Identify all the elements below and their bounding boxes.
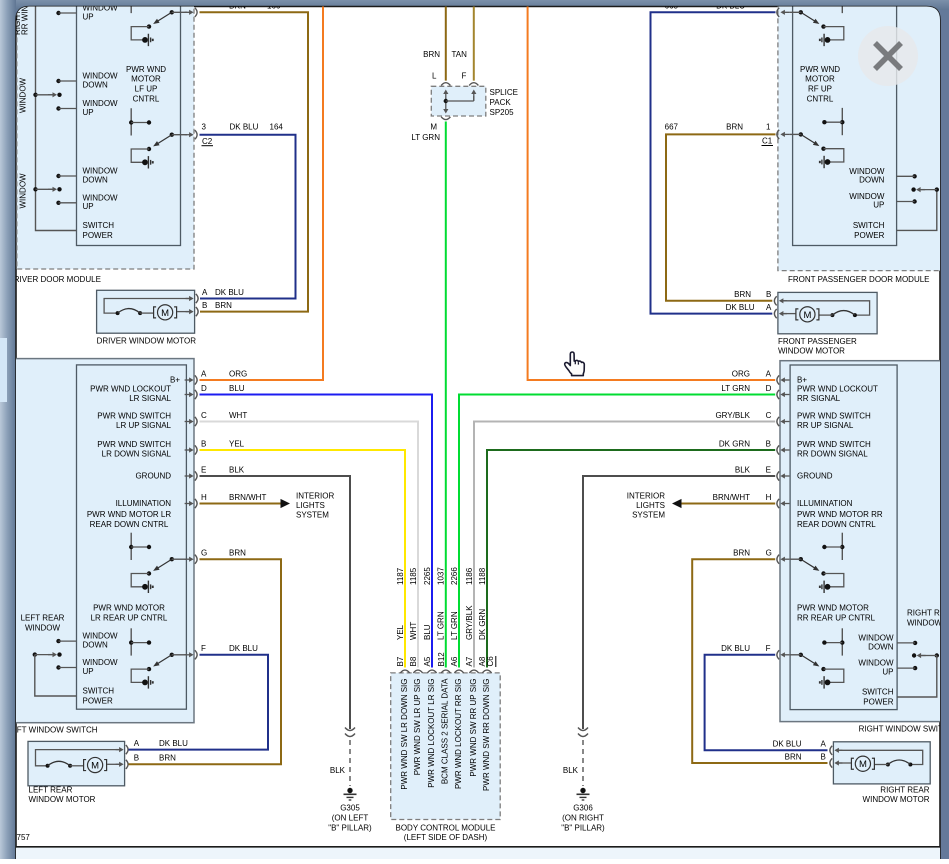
wire BLK left (ground to G305) bbox=[200, 476, 351, 729]
svg-text:WINDOW: WINDOW bbox=[849, 167, 885, 176]
BCM pin A8 DK GRN 1188 bbox=[482, 670, 491, 673]
svg-text:TAN: TAN bbox=[452, 50, 468, 59]
svg-text:BLK: BLK bbox=[229, 465, 245, 474]
svg-text:DRIVER DOOR MODULE: DRIVER DOOR MODULE bbox=[8, 275, 101, 284]
wire DK BLU 164 driver module pin3 to driver window motor A bbox=[200, 135, 296, 299]
wire BRN 667 (module pin1 to front passenger motor B) bbox=[666, 134, 776, 300]
motor driver group pin 2 (top, cut) bbox=[130, 0, 132, 13]
wire ORG right (top to right switch B+) bbox=[528, 7, 776, 381]
right window switch inner box bbox=[790, 365, 897, 710]
svg-text:UP: UP bbox=[83, 13, 94, 22]
wire BRN/WHT left (illumination) bbox=[200, 503, 282, 505]
wire BLK right (right switch ground to G306) bbox=[583, 476, 775, 729]
svg-text:G: G bbox=[201, 549, 207, 558]
svg-text:POWER: POWER bbox=[863, 697, 893, 706]
splice pack SP205 box bbox=[431, 86, 486, 116]
svg-text:LR SIGNAL: LR SIGNAL bbox=[129, 394, 171, 403]
svg-text:PWR WND MOTOR RR: PWR WND MOTOR RR bbox=[797, 510, 883, 519]
svg-text:BRN: BRN bbox=[785, 752, 802, 761]
svg-text:G: G bbox=[766, 549, 772, 558]
wire LT GRN (BCM A6 to right switch D) bbox=[459, 395, 775, 668]
wire DK BLU left (motor LR rear up cntrl to left rear motor A) bbox=[129, 655, 269, 750]
driver door module box (dashed) bbox=[17, 0, 194, 269]
svg-text:DK BLU: DK BLU bbox=[159, 739, 188, 748]
svg-text:WINDOW: WINDOW bbox=[83, 658, 119, 667]
svg-text:POWER: POWER bbox=[83, 696, 113, 705]
splice pack internal junction bbox=[445, 92, 447, 101]
svg-text:(LEFT SIDE OF DASH): (LEFT SIDE OF DASH) bbox=[404, 833, 488, 842]
svg-text:M: M bbox=[91, 760, 99, 771]
svg-text:LEFT REAR: LEFT REAR bbox=[21, 614, 65, 623]
wire BRN left (motor LR rear down cntrl to left rear motor B) bbox=[129, 559, 282, 764]
svg-text:ORG: ORG bbox=[229, 369, 247, 378]
svg-text:164: 164 bbox=[270, 123, 284, 132]
svg-text:WINDOW: WINDOW bbox=[849, 192, 885, 201]
svg-text:DOWN: DOWN bbox=[83, 80, 109, 89]
svg-text:WINDOW: WINDOW bbox=[858, 659, 894, 668]
wire DK BLU right (right switch F to right rear motor A) bbox=[705, 655, 828, 751]
svg-text:POWER: POWER bbox=[854, 231, 884, 240]
svg-text:LT GRN: LT GRN bbox=[411, 133, 440, 142]
wire TAN to splice pack pin F bbox=[473, 7, 475, 81]
svg-text:B12: B12 bbox=[437, 652, 446, 667]
svg-text:B: B bbox=[821, 752, 826, 761]
svg-text:1188: 1188 bbox=[478, 567, 487, 585]
svg-text:PWR WND SW LR UP SIG: PWR WND SW LR UP SIG bbox=[413, 679, 422, 776]
svg-text:BODY CONTROL MODULE: BODY CONTROL MODULE bbox=[395, 823, 495, 832]
driver door module inner switch box bbox=[77, 0, 181, 246]
svg-text:D: D bbox=[201, 384, 207, 393]
svg-text:SP205: SP205 bbox=[490, 108, 515, 117]
wire WHT (switch LR up to BCM B8) bbox=[200, 422, 419, 668]
svg-text:MOTOR: MOTOR bbox=[131, 75, 161, 84]
svg-text:WINDOW: WINDOW bbox=[83, 72, 119, 81]
svg-text:B8: B8 bbox=[409, 656, 418, 666]
svg-text:RF UP: RF UP bbox=[808, 85, 832, 94]
switch power bus (driver door module) bbox=[36, 0, 77, 231]
svg-text:E: E bbox=[766, 465, 771, 474]
svg-text:B7: B7 bbox=[396, 656, 405, 666]
svg-text:PWR WND MOTOR: PWR WND MOTOR bbox=[93, 604, 165, 613]
left switch pins A D C B E H G F with connectors bbox=[185, 379, 192, 381]
right switch pins A D C B E H G F with connectors bbox=[783, 379, 790, 381]
svg-text:B: B bbox=[766, 439, 771, 448]
svg-text:BLU: BLU bbox=[423, 624, 432, 640]
svg-text:DOWN: DOWN bbox=[868, 642, 894, 651]
wire BLU (lockout LR to BCM A5) bbox=[200, 395, 433, 668]
left switch motor driver group F bbox=[130, 628, 132, 655]
svg-text:SWITCH: SWITCH bbox=[853, 221, 885, 230]
svg-text:GROUND: GROUND bbox=[797, 472, 833, 481]
svg-text:M: M bbox=[161, 308, 169, 319]
svg-text:G305: G305 bbox=[340, 804, 360, 813]
svg-text:1037: 1037 bbox=[437, 567, 446, 585]
svg-text:A5: A5 bbox=[423, 656, 432, 666]
ground G305 bbox=[345, 728, 355, 731]
svg-text:B: B bbox=[766, 290, 771, 299]
svg-text:ILLUMINATION: ILLUMINATION bbox=[116, 499, 172, 508]
svg-text:GROUND: GROUND bbox=[135, 472, 171, 481]
svg-text:B: B bbox=[134, 754, 139, 763]
svg-text:RR DOWN SIGNAL: RR DOWN SIGNAL bbox=[797, 450, 868, 459]
svg-text:L: L bbox=[432, 72, 437, 81]
left rear window motor connectors A,B bbox=[116, 749, 122, 751]
BCM pin B12 LT GRN 1037 bbox=[441, 670, 450, 673]
svg-text:BCM CLASS 2 SERIAL DATA: BCM CLASS 2 SERIAL DATA bbox=[441, 678, 450, 784]
mouse cursor (hand pointer) bbox=[565, 352, 585, 376]
svg-text:PWR WND SWITCH: PWR WND SWITCH bbox=[97, 412, 171, 421]
svg-text:UP: UP bbox=[873, 201, 884, 210]
svg-text:DK BLU: DK BLU bbox=[229, 644, 258, 653]
splice pack connector arcs L F M bbox=[441, 83, 450, 86]
svg-text:BRN: BRN bbox=[229, 549, 246, 558]
right switch motor driver group G bbox=[841, 533, 843, 560]
svg-text:SYSTEM: SYSTEM bbox=[632, 511, 665, 520]
svg-text:LEFT REAR: LEFT REAR bbox=[29, 786, 73, 795]
BCM pin A5 BLU 2265 bbox=[427, 670, 436, 673]
svg-text:BRN: BRN bbox=[733, 549, 750, 558]
svg-text:RR REAR UP CNTRL: RR REAR UP CNTRL bbox=[797, 613, 876, 622]
svg-text:A: A bbox=[134, 739, 140, 748]
svg-text:PWR WND SWITCH: PWR WND SWITCH bbox=[797, 440, 871, 449]
svg-text:BLU: BLU bbox=[229, 384, 245, 393]
svg-text:DK BLU: DK BLU bbox=[726, 303, 755, 312]
svg-text:WINDOW: WINDOW bbox=[19, 77, 28, 113]
svg-text:BRN: BRN bbox=[215, 301, 232, 310]
svg-text:DOWN: DOWN bbox=[83, 641, 109, 650]
svg-text:LIGHTS: LIGHTS bbox=[636, 501, 665, 510]
svg-text:LT GRN: LT GRN bbox=[437, 611, 446, 640]
svg-text:C: C bbox=[201, 411, 207, 420]
motor driver group pin 3 C2 bbox=[130, 108, 132, 135]
body control module box (dashed) bbox=[391, 673, 501, 820]
front passenger module pin connector top bbox=[783, 11, 790, 13]
svg-text:BLK: BLK bbox=[330, 766, 346, 775]
svg-text:M: M bbox=[430, 123, 437, 132]
left rear window motor box bbox=[28, 741, 125, 785]
wire BRN right (right switch G to right rear motor B) bbox=[692, 559, 827, 763]
switch power bus (front passenger module) bbox=[897, 190, 937, 231]
svg-text:WINDOW: WINDOW bbox=[907, 618, 943, 627]
svg-text:REAR DOWN CNTRL: REAR DOWN CNTRL bbox=[90, 520, 169, 529]
svg-text:UP: UP bbox=[83, 202, 94, 211]
window down/up contact group 3 bbox=[56, 174, 60, 178]
svg-text:WINDOW: WINDOW bbox=[19, 173, 28, 209]
svg-text:RR SIGNAL: RR SIGNAL bbox=[797, 394, 841, 403]
svg-text:PWR WND SW RR DOWN SIG: PWR WND SW RR DOWN SIG bbox=[482, 679, 491, 791]
svg-text:BRN: BRN bbox=[726, 122, 743, 131]
svg-text:PWR WND MOTOR: PWR WND MOTOR bbox=[797, 604, 869, 613]
svg-text:PWR WND LOCKOUT RR SIG: PWR WND LOCKOUT RR SIG bbox=[454, 679, 463, 790]
front passenger window motor connectors B,A bbox=[781, 300, 787, 302]
window up contact group 1 (cut at top) bbox=[56, 11, 60, 15]
svg-text:PWR WND MOTOR LR: PWR WND MOTOR LR bbox=[87, 510, 172, 519]
svg-text:FRONT PASSENGER: FRONT PASSENGER bbox=[778, 337, 857, 346]
svg-text:PACK: PACK bbox=[490, 98, 512, 107]
right rear window motor box bbox=[833, 742, 930, 784]
svg-text:"B" PILLAR): "B" PILLAR) bbox=[561, 824, 605, 833]
svg-text:B: B bbox=[201, 439, 206, 448]
svg-text:LF UP: LF UP bbox=[135, 85, 158, 94]
BCM pin A6 LT GRN 2266 bbox=[454, 670, 463, 673]
svg-text:PWR WND LOCKOUT LR SIG: PWR WND LOCKOUT LR SIG bbox=[427, 679, 436, 788]
svg-text:RIGHT WINDOW SWITCH: RIGHT WINDOW SWITCH bbox=[859, 725, 949, 734]
svg-text:LR REAR UP CNTRL: LR REAR UP CNTRL bbox=[91, 613, 168, 622]
svg-text:1185: 1185 bbox=[409, 567, 418, 585]
svg-text:BRN: BRN bbox=[423, 50, 440, 59]
svg-text:YEL: YEL bbox=[396, 624, 405, 640]
svg-text:LIGHTS: LIGHTS bbox=[296, 501, 325, 510]
svg-text:BRN: BRN bbox=[734, 290, 751, 299]
ground G306 bbox=[578, 728, 588, 731]
right switch motor driver group F bbox=[841, 628, 843, 655]
svg-text:667: 667 bbox=[665, 122, 679, 131]
svg-text:GRY/BLK: GRY/BLK bbox=[715, 411, 750, 420]
svg-text:C1: C1 bbox=[762, 137, 773, 146]
svg-text:LT GRN: LT GRN bbox=[721, 384, 750, 393]
svg-text:BRN/WHT: BRN/WHT bbox=[229, 493, 266, 502]
svg-text:BLK: BLK bbox=[563, 766, 579, 775]
svg-text:2265: 2265 bbox=[423, 567, 432, 585]
svg-text:DK GRN: DK GRN bbox=[478, 609, 487, 640]
svg-text:PWR WND SWITCH: PWR WND SWITCH bbox=[797, 412, 871, 421]
svg-text:PWR WND SWITCH: PWR WND SWITCH bbox=[97, 440, 171, 449]
svg-text:C: C bbox=[766, 411, 772, 420]
svg-text:"B" PILLAR): "B" PILLAR) bbox=[328, 824, 372, 833]
svg-text:DK BLU: DK BLU bbox=[773, 740, 802, 749]
left switch motor driver group G bbox=[130, 533, 132, 560]
svg-text:M: M bbox=[803, 310, 811, 321]
motor driver group pin (top, cut) right bbox=[841, 0, 843, 13]
svg-text:1186: 1186 bbox=[465, 567, 474, 585]
window down/up contact group 2 bbox=[56, 79, 60, 83]
svg-text:B+: B+ bbox=[797, 376, 807, 385]
svg-text:C6: C6 bbox=[486, 656, 495, 667]
svg-text:(ON RIGHT: (ON RIGHT bbox=[562, 814, 604, 823]
right window switch outer box bbox=[780, 361, 949, 722]
wire DK BLU right top (module to front passenger motor A) bbox=[651, 12, 776, 313]
svg-text:DOWN: DOWN bbox=[859, 176, 885, 185]
svg-text:PWR WND: PWR WND bbox=[126, 65, 166, 74]
svg-text:A7: A7 bbox=[465, 656, 474, 666]
svg-text:CNTRL: CNTRL bbox=[133, 95, 160, 104]
wire BRN 166 driver module pin2 to driver window motor B bbox=[200, 12, 309, 311]
svg-text:LR UP SIGNAL: LR UP SIGNAL bbox=[116, 421, 172, 430]
svg-text:POWER: POWER bbox=[83, 231, 113, 240]
driver window motor box bbox=[97, 290, 195, 333]
svg-text:PWR WND: PWR WND bbox=[800, 65, 840, 74]
svg-text:DRIVER WINDOW MOTOR: DRIVER WINDOW MOTOR bbox=[97, 337, 197, 346]
svg-text:WINDOW: WINDOW bbox=[83, 167, 119, 176]
svg-text:SPLICE: SPLICE bbox=[490, 88, 518, 97]
svg-text:B+: B+ bbox=[170, 376, 180, 385]
svg-text:LEFT WINDOW SWITCH: LEFT WINDOW SWITCH bbox=[7, 726, 98, 735]
svg-text:A: A bbox=[821, 740, 827, 749]
front passenger door module box (dashed) bbox=[778, 0, 949, 271]
svg-text:FRONT PASSENGER DOOR MODULE: FRONT PASSENGER DOOR MODULE bbox=[788, 275, 930, 284]
svg-text:REAR DOWN CNTRL: REAR DOWN CNTRL bbox=[797, 520, 876, 529]
svg-text:WINDOW: WINDOW bbox=[83, 632, 119, 641]
wire DK GRN (BCM A8 to right switch B) bbox=[487, 450, 775, 668]
svg-text:A: A bbox=[766, 369, 772, 378]
svg-text:LR DOWN SIGNAL: LR DOWN SIGNAL bbox=[102, 450, 172, 459]
svg-text:DOWN: DOWN bbox=[83, 175, 109, 184]
front passenger door module inner box bbox=[793, 0, 897, 246]
motor driver group pin 1 C1 bbox=[841, 108, 843, 135]
svg-text:WINDOW: WINDOW bbox=[83, 99, 119, 108]
wire GRY/BLK (BCM A7 to right switch C) bbox=[474, 422, 775, 668]
svg-text:SWITCH: SWITCH bbox=[83, 221, 115, 230]
window down/up contacts (front passenger module) bbox=[912, 174, 916, 178]
svg-text:INTERIOR: INTERIOR bbox=[296, 492, 334, 501]
svg-text:H: H bbox=[201, 493, 207, 502]
svg-text:WINDOW: WINDOW bbox=[858, 634, 894, 643]
svg-text:757: 757 bbox=[17, 833, 31, 842]
svg-text:B: B bbox=[202, 301, 207, 310]
svg-text:GRY/BLK: GRY/BLK bbox=[465, 605, 474, 640]
BCM pin B8 WHT 1185 bbox=[413, 670, 422, 673]
svg-text:RR UP SIGNAL: RR UP SIGNAL bbox=[797, 421, 854, 430]
svg-text:UP: UP bbox=[882, 668, 893, 677]
svg-text:F: F bbox=[201, 644, 206, 653]
svg-text:MOTOR: MOTOR bbox=[805, 75, 835, 84]
svg-text:DK BLU: DK BLU bbox=[215, 288, 244, 297]
svg-text:BLK: BLK bbox=[735, 465, 751, 474]
svg-text:WINDOW MOTOR: WINDOW MOTOR bbox=[863, 795, 930, 804]
BCM pin A7 GRY/BLK 1186 bbox=[469, 670, 478, 673]
svg-text:UP: UP bbox=[83, 108, 94, 117]
wire YEL (switch LR down to BCM B7) bbox=[200, 450, 406, 668]
svg-text:LT GRN: LT GRN bbox=[450, 611, 459, 640]
svg-text:ILLUMINATION: ILLUMINATION bbox=[797, 499, 853, 508]
wire LT GRN splice M to BCM B12 bbox=[445, 122, 447, 668]
svg-text:WINDOW MOTOR: WINDOW MOTOR bbox=[778, 347, 845, 356]
right rear window motor connectors A,B bbox=[837, 749, 843, 751]
svg-text:A: A bbox=[201, 369, 207, 378]
front passenger window motor box bbox=[778, 292, 877, 333]
svg-text:BRN: BRN bbox=[159, 754, 176, 763]
svg-text:SWITCH: SWITCH bbox=[83, 687, 115, 696]
svg-text:SYSTEM: SYSTEM bbox=[296, 511, 329, 520]
svg-text:RIGHT REAR: RIGHT REAR bbox=[880, 786, 929, 795]
diagram bottom border line bbox=[16, 846, 940, 848]
left window switch outer box bbox=[0, 359, 194, 723]
svg-text:DK BLU: DK BLU bbox=[230, 123, 259, 132]
svg-text:F: F bbox=[462, 72, 467, 81]
svg-text:WINDOW MOTOR: WINDOW MOTOR bbox=[29, 795, 96, 804]
driver window motor connector pins A,B bbox=[186, 298, 192, 300]
svg-text:E: E bbox=[201, 465, 206, 474]
svg-text:2266: 2266 bbox=[450, 567, 459, 585]
svg-text:3: 3 bbox=[202, 123, 207, 132]
svg-text:PWR WND SW RR UP SIG: PWR WND SW RR UP SIG bbox=[469, 679, 478, 777]
svg-text:SWITCH: SWITCH bbox=[862, 688, 894, 697]
svg-text:UP: UP bbox=[83, 667, 94, 676]
svg-text:F: F bbox=[766, 644, 771, 653]
svg-text:PWR WND SW LR DOWN SIG: PWR WND SW LR DOWN SIG bbox=[400, 679, 409, 790]
wire BRN to splice pack pin L bbox=[445, 7, 447, 81]
svg-text:(ON LEFT: (ON LEFT bbox=[332, 814, 369, 823]
svg-text:CNTRL: CNTRL bbox=[807, 95, 834, 104]
area below diagram bottom border bbox=[16, 848, 940, 859]
svg-text:A: A bbox=[766, 303, 772, 312]
svg-text:A6: A6 bbox=[450, 656, 459, 666]
svg-text:DK BLU: DK BLU bbox=[721, 644, 750, 653]
left window switch inner box bbox=[77, 365, 187, 709]
svg-text:D: D bbox=[766, 384, 772, 393]
driver door module pin 2 connector bbox=[185, 11, 192, 13]
svg-text:WHT: WHT bbox=[409, 622, 418, 640]
svg-text:G306: G306 bbox=[573, 804, 593, 813]
svg-text:DK GRN: DK GRN bbox=[719, 439, 750, 448]
svg-text:INTERIOR: INTERIOR bbox=[627, 492, 665, 501]
svg-text:C2: C2 bbox=[202, 137, 213, 146]
svg-text:WHT: WHT bbox=[229, 411, 247, 420]
svg-text:1187: 1187 bbox=[396, 567, 405, 585]
svg-text:H: H bbox=[766, 493, 772, 502]
svg-text:M: M bbox=[859, 759, 867, 770]
svg-text:A: A bbox=[202, 288, 208, 297]
svg-text:ORG: ORG bbox=[732, 369, 750, 378]
left edge light patch bbox=[0, 338, 7, 402]
wire BRN/WHT right (illumination) bbox=[681, 503, 775, 505]
wire ORG left (B+ to top) bbox=[200, 7, 324, 381]
svg-text:WINDOW: WINDOW bbox=[25, 623, 61, 632]
close button bbox=[858, 26, 918, 86]
svg-text:PWR WND LOCKOUT: PWR WND LOCKOUT bbox=[90, 385, 171, 394]
svg-text:WINDOW: WINDOW bbox=[83, 193, 119, 202]
driver door module pin 3 connector C2 bbox=[185, 134, 192, 136]
BCM pin B7 YEL 1187 bbox=[400, 670, 409, 673]
svg-text:1: 1 bbox=[766, 122, 771, 131]
svg-text:YEL: YEL bbox=[229, 439, 245, 448]
front passenger module pin 1 connector C1 bbox=[783, 133, 790, 135]
svg-text:PWR WND LOCKOUT: PWR WND LOCKOUT bbox=[797, 385, 878, 394]
svg-text:BRN/WHT: BRN/WHT bbox=[713, 493, 750, 502]
